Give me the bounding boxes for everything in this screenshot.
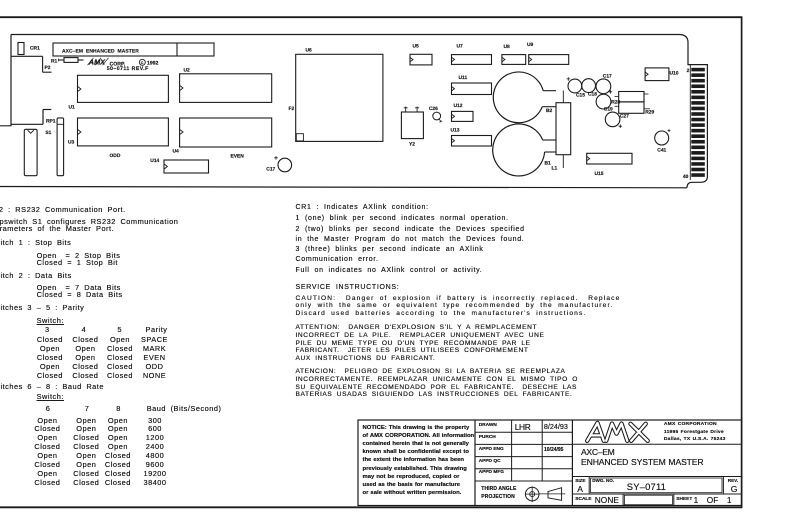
svg-text:R28: R28: [611, 99, 620, 105]
svg-text:P2: P2: [45, 65, 51, 71]
svg-text:U13: U13: [451, 127, 460, 133]
svg-text:R1: R1: [51, 59, 58, 65]
svg-text:C15: C15: [576, 93, 585, 99]
svg-text:2: 2: [687, 68, 690, 74]
svg-text:U15: U15: [595, 171, 604, 177]
svg-text:U2: U2: [184, 67, 191, 73]
svg-text:B2: B2: [546, 108, 553, 114]
svg-text:U5: U5: [413, 44, 420, 50]
svg-text:U6: U6: [306, 47, 313, 53]
svg-text:AMX: AMX: [88, 58, 106, 67]
svg-text:C41: C41: [657, 147, 666, 153]
svg-text:C18: C18: [588, 92, 597, 98]
svg-text:AXC–EM ENHANCED MASTER: AXC–EM ENHANCED MASTER: [62, 48, 139, 54]
svg-text:Y2: Y2: [409, 141, 415, 147]
svg-text:EVEN: EVEN: [231, 154, 245, 160]
svg-text:ODD: ODD: [110, 153, 121, 159]
svg-text:R29: R29: [645, 109, 654, 115]
svg-text:U8: U8: [504, 44, 511, 50]
svg-text:U7: U7: [457, 43, 464, 49]
svg-text:U3: U3: [68, 139, 75, 145]
svg-text:RP1: RP1: [46, 119, 56, 125]
svg-text:S1: S1: [45, 130, 51, 136]
svg-text:C19: C19: [604, 106, 613, 112]
svg-text:U11: U11: [459, 75, 468, 81]
svg-text:50–0711 REV.F: 50–0711 REV.F: [107, 66, 149, 72]
svg-text:C17: C17: [603, 73, 612, 79]
svg-text:U4: U4: [173, 149, 180, 155]
svg-text:F2: F2: [289, 106, 295, 112]
svg-text:C27: C27: [620, 113, 629, 119]
svg-text:CR1: CR1: [30, 46, 40, 52]
svg-text:U9: U9: [527, 42, 534, 48]
svg-text:C: C: [141, 61, 144, 65]
svg-text:L1: L1: [552, 166, 558, 172]
svg-text:B1: B1: [545, 161, 552, 167]
svg-text:40: 40: [683, 174, 689, 180]
svg-text:U12: U12: [454, 103, 463, 109]
svg-text:C26: C26: [429, 106, 438, 112]
svg-text:U14: U14: [150, 158, 159, 164]
svg-text:C17: C17: [266, 166, 275, 172]
svg-text:U10: U10: [670, 70, 679, 76]
svg-text:U1: U1: [69, 104, 76, 110]
